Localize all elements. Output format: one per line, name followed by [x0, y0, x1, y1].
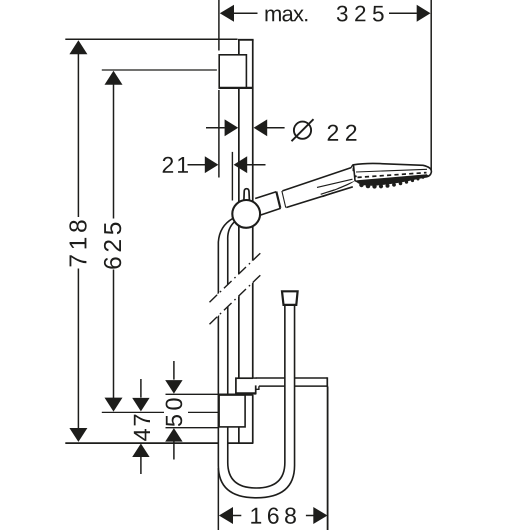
dimension max. 325 (top) [220, 5, 431, 22]
shower shelf slider block on rail [235, 378, 256, 393]
spray face nozzle band [357, 173, 428, 189]
wall bracket bottom [219, 395, 253, 427]
rail break marks (dash-dot diagonals with white gap) [210, 253, 261, 324]
wall bracket top [219, 55, 253, 88]
shelf arm [253, 377, 327, 389]
168 left extension line (over hose curve) [217, 468, 219, 530]
hose end connector (conical nut) [282, 291, 298, 305]
slider pin (lock lever) [244, 189, 250, 203]
spray head body [351, 163, 431, 184]
dimension 718 (left vertical) [65, 39, 237, 442]
dimension 625 [102, 70, 219, 412]
dimension 47 [132, 379, 150, 474]
shower hose (tube: down from handle, U-turn, up to end connector) [218, 218, 294, 497]
wire wall reference line (left extension line, x=218.9) [218, 0, 220, 178]
dimension 168 (bottom) [219, 387, 328, 530]
select button dark accent [317, 179, 355, 197]
slider knob circle [232, 200, 260, 228]
hand shower handle [282, 167, 353, 207]
extension line right (x=431.2, head tip) [430, 0, 432, 173]
dimension 50 [164, 361, 219, 460]
dimension Ø 22 [206, 119, 356, 141]
extension line bottom (rail end, y=443.1) [65, 442, 253, 444]
dimension 21 [163, 152, 266, 201]
slider cone holder [255, 192, 281, 216]
rail (wall bar) [238, 40, 254, 443]
holder joint rings [276, 191, 286, 208]
